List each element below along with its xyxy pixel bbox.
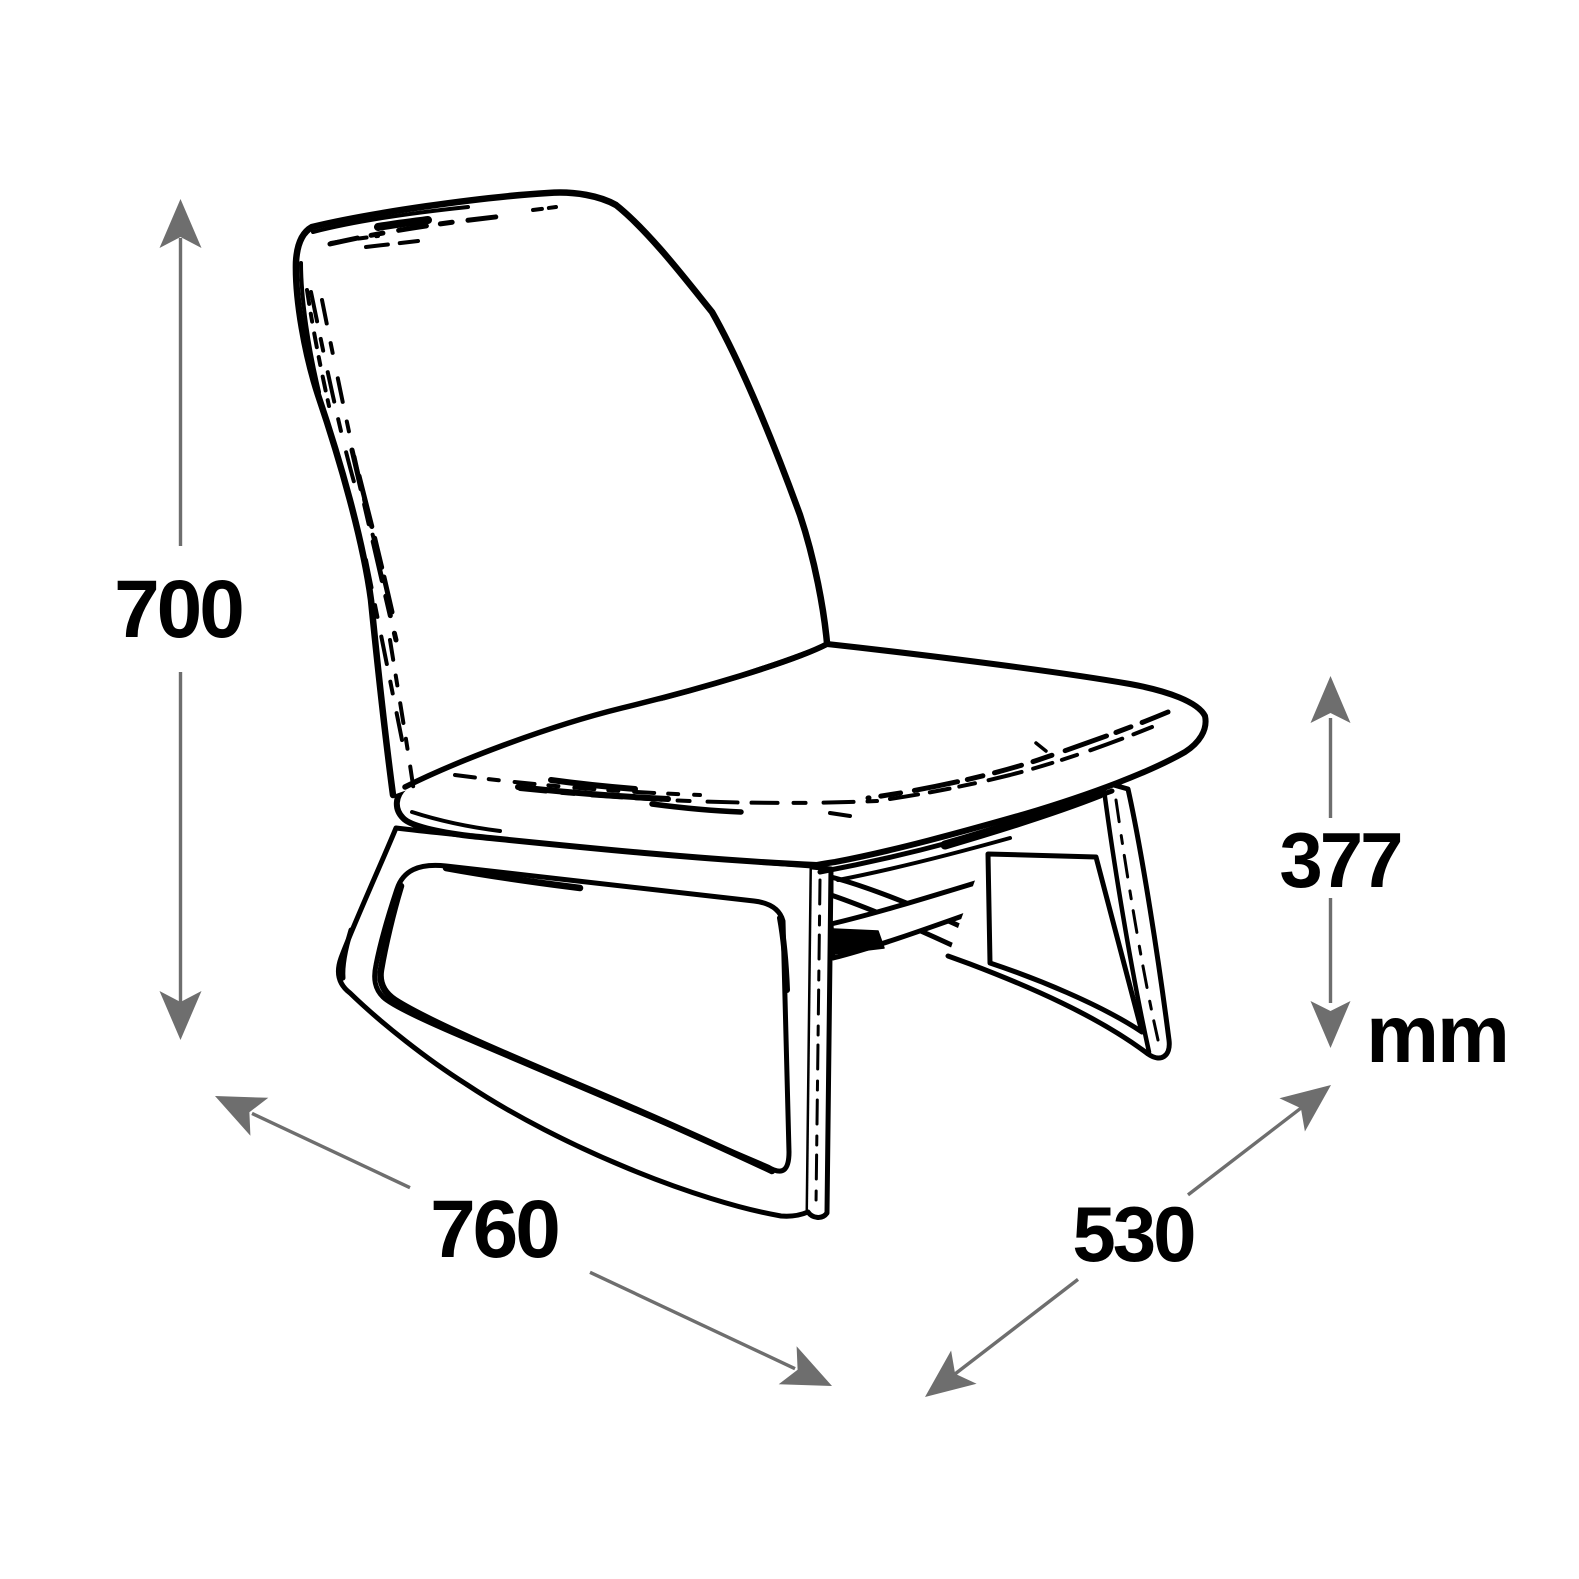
svg-text:760: 760 — [430, 1184, 558, 1275]
svg-text:700: 700 — [114, 564, 242, 655]
svg-text:mm: mm — [1366, 989, 1508, 1080]
svg-text:530: 530 — [1072, 1190, 1194, 1278]
svg-text:377: 377 — [1279, 816, 1400, 904]
